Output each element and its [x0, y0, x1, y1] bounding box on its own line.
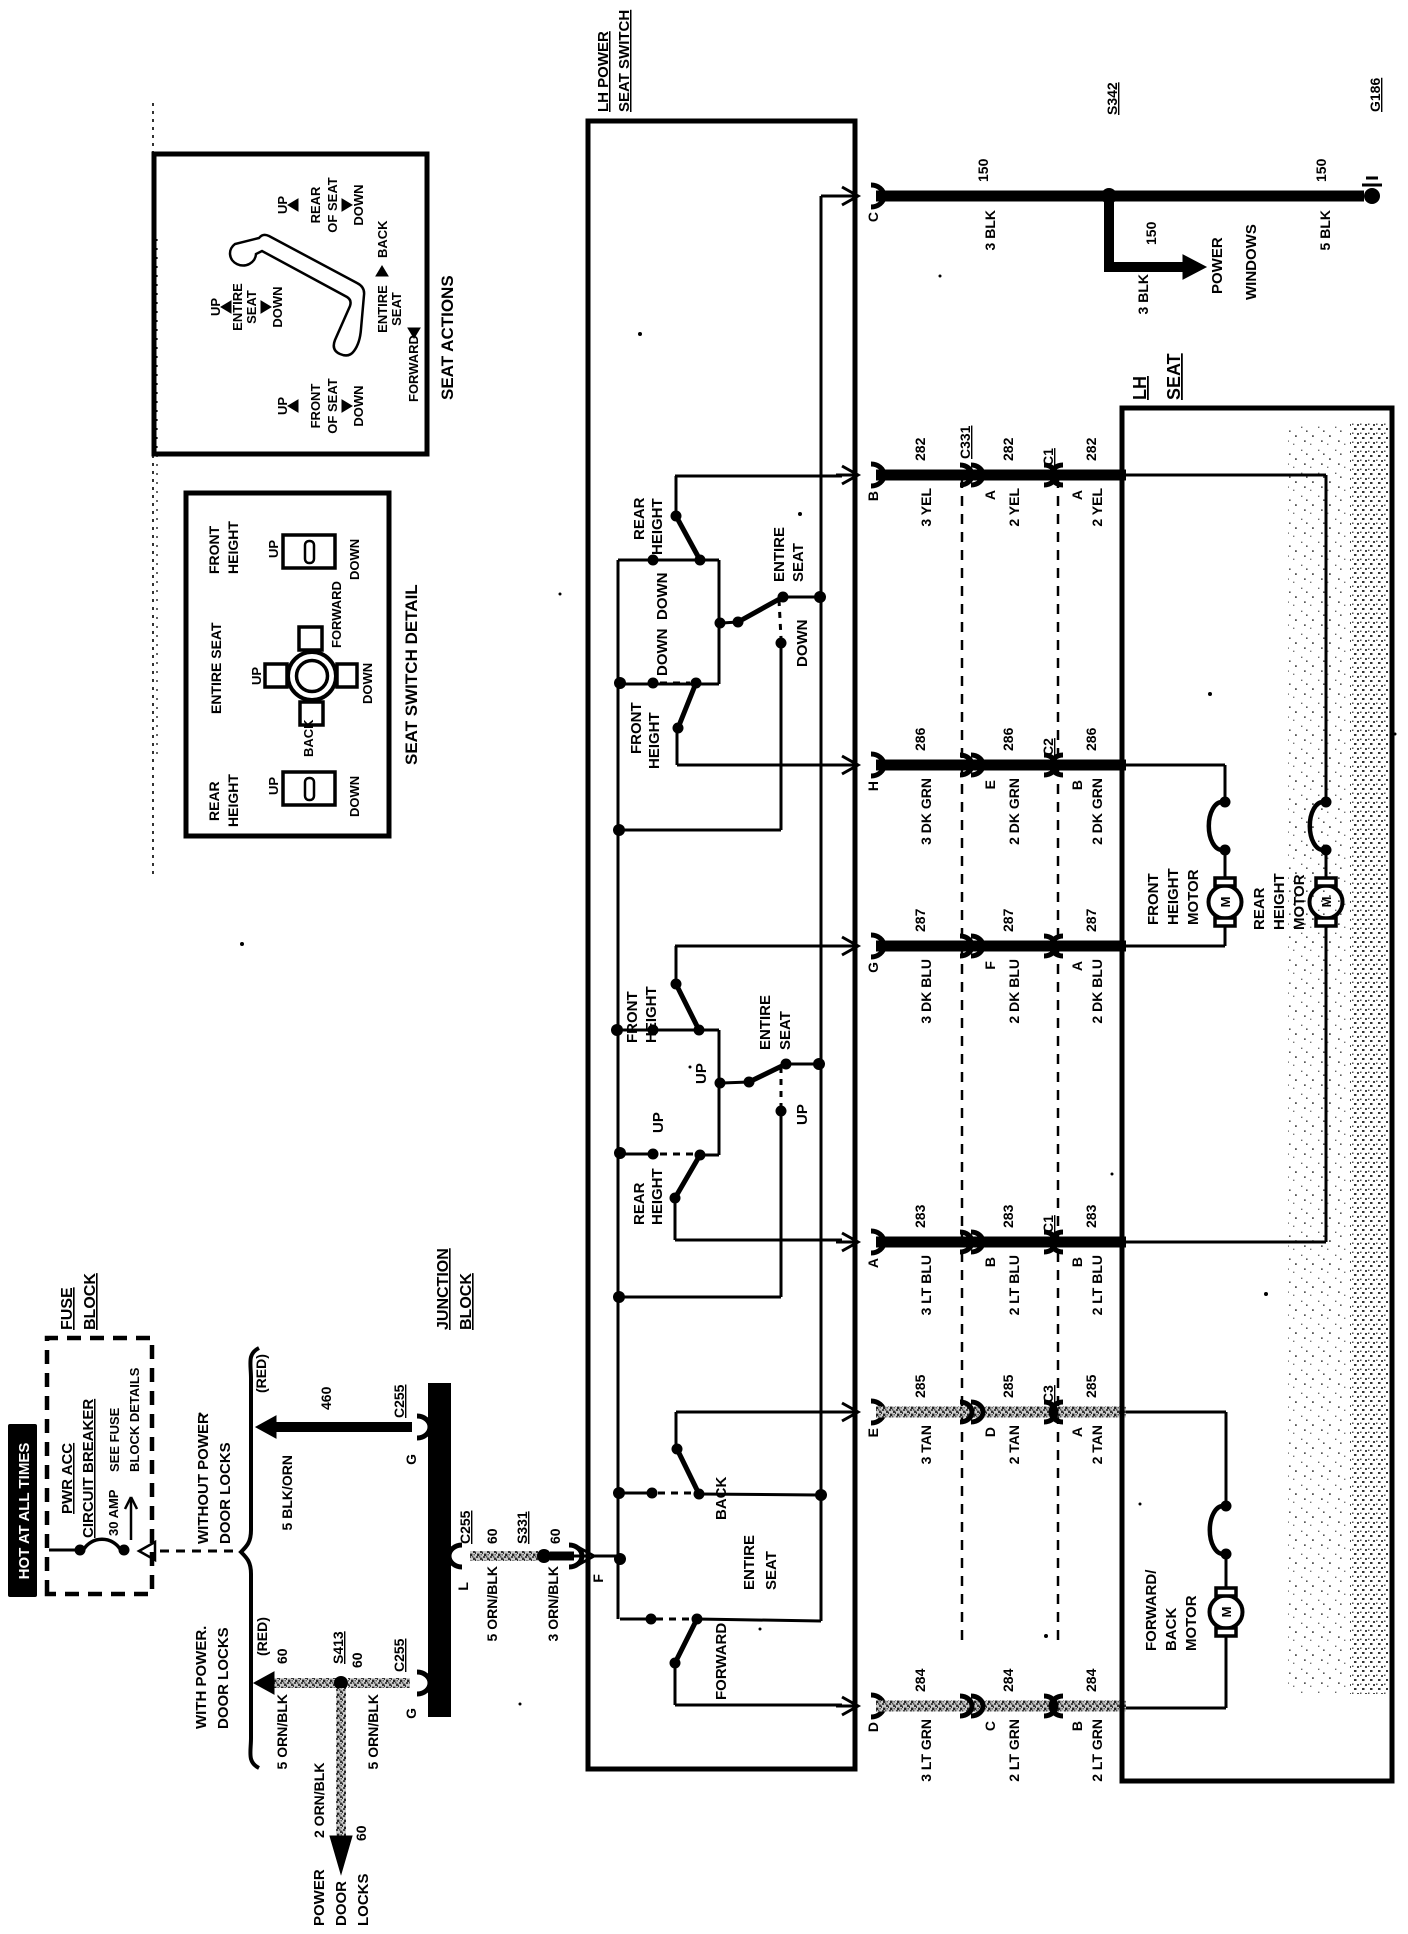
svg-text:POWER: POWER	[1209, 237, 1226, 294]
svg-text:B: B	[1069, 780, 1085, 790]
connector C331 terminal C	[960, 1696, 972, 1716]
svg-text:ENTIRE: ENTIRE	[757, 995, 774, 1050]
inline connector forward/back motor	[1221, 1549, 1232, 1560]
wire 150 3 BLK from terminal C	[876, 191, 1104, 202]
svg-text:JUNCTION: JUNCTION	[435, 1248, 452, 1330]
svg-text:HEIGHT: HEIGHT	[649, 498, 666, 555]
connector C331 terminal B	[960, 1232, 972, 1252]
svg-text:150: 150	[975, 158, 991, 182]
arrow to SEE FUSE BLOCK DETAILS	[130, 1500, 133, 1540]
fuse block dashed box	[47, 1338, 152, 1594]
svg-text:HEIGHT: HEIGHT	[643, 986, 660, 1043]
svg-text:2 DK BLU: 2 DK BLU	[1006, 959, 1022, 1024]
svg-text:S331: S331	[514, 1511, 530, 1544]
rocker switch front height	[283, 535, 335, 568]
svg-text:3 LT BLU: 3 LT BLU	[918, 1255, 934, 1315]
svg-text:3 BLK: 3 BLK	[982, 210, 998, 250]
circuit breaker PWR ACC 30 AMP	[49, 1549, 75, 1552]
svg-text:MOTOR: MOTOR	[1185, 869, 1202, 925]
svg-text:460: 460	[318, 1386, 334, 1410]
svg-text:60: 60	[349, 1652, 365, 1668]
connector C1/C2/C3 terminal B	[1044, 1696, 1056, 1716]
svg-text:M: M	[1218, 897, 1233, 908]
svg-text:5 ORN/BLK: 5 ORN/BLK	[365, 1694, 381, 1769]
svg-text:BACK: BACK	[713, 1477, 730, 1520]
svg-text:FRONT: FRONT	[308, 384, 323, 429]
svg-text:2 YEL: 2 YEL	[1006, 488, 1022, 527]
svg-text:2 LT GRN: 2 LT GRN	[1006, 1719, 1022, 1782]
svg-text:DOWN: DOWN	[270, 286, 285, 327]
svg-text:D: D	[865, 1722, 881, 1732]
svg-text:285: 285	[1000, 1374, 1016, 1398]
svg-text:2 YEL: 2 YEL	[1089, 488, 1105, 527]
splice S413	[334, 1676, 348, 1690]
wire 282 to rear height motor	[1126, 474, 1326, 477]
wire 150 5 BLK to ground	[1114, 191, 1364, 202]
wire 287 to front height motor	[1126, 945, 1225, 948]
svg-text:FRONT: FRONT	[1145, 873, 1162, 925]
svg-text:2 TAN: 2 TAN	[1089, 1425, 1105, 1464]
feed rail bus	[617, 560, 620, 1619]
svg-text:SEAT: SEAT	[1164, 353, 1184, 400]
svg-text:BLOCK DETAILS: BLOCK DETAILS	[127, 1367, 142, 1472]
svg-text:FORWARD: FORWARD	[406, 335, 421, 402]
svg-text:2 TAN: 2 TAN	[1006, 1425, 1022, 1464]
svg-text:5 ORN/BLK: 5 ORN/BLK	[484, 1566, 500, 1641]
svg-text:FRONT: FRONT	[624, 991, 641, 1043]
svg-text:DOWN: DOWN	[360, 663, 375, 704]
svg-text:SEAT SWITCH DETAIL: SEAT SWITCH DETAIL	[402, 584, 421, 765]
terminal B of seat switch	[842, 466, 858, 484]
switch FRONT HEIGHT DOWN	[673, 723, 684, 734]
svg-text:UP: UP	[693, 1063, 710, 1084]
terminal D of seat switch	[842, 1697, 858, 1715]
svg-text:E: E	[982, 780, 998, 789]
svg-text:POWER: POWER	[311, 1869, 328, 1926]
svg-text:3 YEL: 3 YEL	[918, 488, 934, 527]
svg-text:60: 60	[484, 1528, 500, 1544]
switch ENTIRE SEAT UP	[813, 1058, 825, 1070]
terminal C of seat switch	[842, 187, 858, 205]
switch FRONT HEIGHT UP	[675, 946, 678, 984]
motor M rear height	[1310, 886, 1343, 919]
inset box SEAT SWITCH DETAIL	[186, 493, 389, 836]
entire-seat-down contact feed line	[780, 643, 783, 830]
svg-text:OF SEAT: OF SEAT	[325, 378, 340, 433]
LH SEAT box	[1122, 408, 1392, 1781]
connector C1 terminal B	[1044, 1232, 1056, 1252]
svg-text:DOOR LOCKS: DOOR LOCKS	[217, 1442, 234, 1544]
svg-text:284: 284	[912, 1668, 928, 1692]
feed rail from F	[592, 1555, 618, 1558]
junction block bar	[428, 1383, 451, 1717]
svg-text:BACK: BACK	[375, 220, 390, 258]
svg-text:2 LT GRN: 2 LT GRN	[1089, 1719, 1105, 1782]
svg-text:C3: C3	[1040, 1385, 1056, 1403]
svg-text:150: 150	[1143, 221, 1159, 245]
svg-text:287: 287	[912, 908, 928, 932]
svg-text:HEIGHT: HEIGHT	[649, 1168, 666, 1225]
svg-text:282: 282	[912, 437, 928, 461]
svg-text:283: 283	[1083, 1204, 1099, 1228]
svg-text:DOWN: DOWN	[654, 573, 671, 621]
svg-text:DOWN: DOWN	[654, 629, 671, 677]
branch wire 150 3 BLK to power windows	[1104, 192, 1114, 267]
svg-text:SEAT: SEAT	[763, 1551, 780, 1590]
wire 283 to rear height motor	[1126, 1241, 1326, 1244]
connector C2 terminal B	[1044, 755, 1056, 775]
svg-text:30 AMP: 30 AMP	[106, 1489, 121, 1536]
svg-text:FORWARD/: FORWARD/	[1143, 1569, 1160, 1651]
svg-text:M: M	[1219, 1607, 1234, 1618]
svg-text:G186: G186	[1367, 78, 1383, 112]
svg-text:DOWN: DOWN	[347, 776, 362, 817]
svg-text:284: 284	[1083, 1668, 1099, 1692]
svg-text:M: M	[1319, 897, 1334, 908]
svg-text:3 ORN/BLK: 3 ORN/BLK	[545, 1566, 561, 1641]
svg-text:REAR: REAR	[631, 1182, 648, 1225]
wire 5 ORN/BLK (RED) to S413 (speckled)	[266, 1678, 336, 1688]
svg-text:C255: C255	[457, 1510, 473, 1544]
svg-text:(RED): (RED)	[253, 1354, 269, 1393]
svg-text:REAR: REAR	[631, 497, 648, 540]
ground G186	[1364, 188, 1380, 204]
brace for door lock options	[241, 1348, 259, 1768]
svg-text:FORWARD: FORWARD	[329, 581, 344, 648]
svg-text:PWR ACC: PWR ACC	[59, 1443, 76, 1514]
svg-text:LH POWER: LH POWER	[595, 31, 612, 112]
svg-text:B: B	[1069, 1257, 1085, 1267]
svg-text:DOWN: DOWN	[347, 539, 362, 580]
svg-text:SEAT SWITCH: SEAT SWITCH	[616, 10, 633, 112]
svg-text:C255: C255	[391, 1638, 407, 1672]
connector C255 G (without power door locks)	[417, 1416, 430, 1438]
svg-text:DOOR LOCKS: DOOR LOCKS	[215, 1627, 232, 1729]
svg-text:BACK: BACK	[1163, 1608, 1180, 1651]
inset box SEAT ACTIONS	[154, 154, 427, 454]
svg-text:WITHOUT POWER: WITHOUT POWER	[195, 1413, 212, 1544]
svg-text:285: 285	[1083, 1374, 1099, 1398]
svg-text:S413: S413	[330, 1631, 346, 1664]
svg-text:HEIGHT: HEIGHT	[1165, 868, 1182, 925]
svg-text:SEE FUSE: SEE FUSE	[107, 1407, 122, 1472]
connector C331 terminal A	[960, 465, 972, 485]
svg-text:3 BLK: 3 BLK	[1135, 274, 1151, 314]
svg-text:REAR: REAR	[206, 781, 222, 821]
power label HOT AT ALL TIMES	[8, 1424, 37, 1597]
svg-text:60: 60	[353, 1825, 369, 1841]
svg-text:2 DK BLU: 2 DK BLU	[1089, 959, 1105, 1024]
svg-text:HEIGHT: HEIGHT	[1271, 873, 1288, 930]
terminal A of seat switch	[842, 1233, 858, 1251]
switch ENTIRE SEAT DOWN	[814, 591, 826, 603]
connector C331 dashed boundary	[961, 478, 964, 1640]
wire 460 5 BLK/ORN (RED) to junction block	[268, 1422, 412, 1432]
wire 3 ORN/BLK 60 to switch F	[550, 1552, 574, 1561]
contact rail front-height-up	[617, 1029, 719, 1032]
connector C331 terminal E	[960, 755, 972, 775]
svg-text:UP: UP	[266, 540, 281, 558]
svg-text:F: F	[590, 1574, 606, 1583]
connector C255 G (with power door locks)	[417, 1672, 430, 1694]
svg-text:DOWN: DOWN	[794, 620, 811, 668]
svg-text:BACK: BACK	[301, 719, 316, 757]
wire 2 ORN/BLK 60 to power door locks (speckled)	[336, 1688, 346, 1838]
svg-text:3 DK GRN: 3 DK GRN	[918, 778, 934, 845]
svg-text:B: B	[1069, 1721, 1085, 1731]
svg-text:SEAT: SEAT	[790, 543, 807, 582]
svg-text:C: C	[982, 1721, 998, 1731]
terminal F of seat switch	[569, 1545, 582, 1567]
svg-text:284: 284	[1000, 1668, 1016, 1692]
svg-text:283: 283	[912, 1204, 928, 1228]
wire circuit 283 3 LT BLU	[876, 1237, 1126, 1248]
svg-text:ENTIRE: ENTIRE	[771, 527, 788, 582]
svg-text:LOCKS: LOCKS	[355, 1874, 372, 1927]
svg-text:D: D	[982, 1427, 998, 1437]
svg-text:CIRCUIT BREAKER: CIRCUIT BREAKER	[80, 1399, 97, 1538]
splice S331	[537, 1549, 551, 1563]
svg-text:3 LT GRN: 3 LT GRN	[918, 1719, 934, 1782]
svg-text:FRONT: FRONT	[628, 702, 645, 754]
splice S342	[1101, 188, 1117, 204]
svg-text:C1: C1	[1040, 1215, 1056, 1233]
svg-text:H: H	[865, 781, 881, 791]
svg-text:FRONT: FRONT	[206, 525, 222, 574]
svg-text:287: 287	[1000, 908, 1016, 932]
svg-text:283: 283	[1000, 1204, 1016, 1228]
svg-text:LH: LH	[1130, 376, 1150, 400]
svg-text:A: A	[982, 490, 998, 500]
svg-text:E: E	[865, 1428, 881, 1437]
svg-text:A: A	[1069, 490, 1085, 500]
svg-text:HEIGHT: HEIGHT	[225, 774, 241, 827]
wire circuit 282 3 YEL	[876, 470, 1126, 481]
svg-text:HEIGHT: HEIGHT	[225, 521, 241, 574]
ground bus to terminal C	[820, 196, 823, 1621]
svg-text:SEAT: SEAT	[244, 290, 259, 324]
svg-text:F: F	[982, 961, 998, 970]
svg-text:A: A	[1069, 1427, 1085, 1437]
wire 284 to forward/back motor	[1126, 1707, 1226, 1710]
motor M forward/back	[1210, 1596, 1243, 1629]
contact rail rear-height-down	[618, 559, 719, 562]
svg-text:286: 286	[912, 727, 928, 751]
svg-text:A: A	[865, 1258, 881, 1268]
svg-text:282: 282	[1000, 437, 1016, 461]
svg-text:DOWN: DOWN	[351, 184, 366, 225]
svg-text:60: 60	[274, 1648, 290, 1664]
svg-text:G: G	[403, 1708, 419, 1719]
svg-text:OF SEAT: OF SEAT	[325, 177, 340, 232]
svg-text:UP: UP	[249, 667, 264, 685]
svg-text:FORWARD: FORWARD	[713, 1623, 730, 1700]
svg-text:3 DK BLU: 3 DK BLU	[918, 959, 934, 1024]
svg-text:UP: UP	[794, 1104, 811, 1125]
inline connector rear height motor	[1321, 845, 1332, 856]
connector C1/C2/C3 terminal A	[1044, 936, 1056, 956]
switch REAR HEIGHT DOWN	[675, 476, 678, 516]
connector C331 terminal F	[960, 936, 972, 956]
wire circuit 286 3 DK GRN	[876, 760, 1126, 771]
svg-text:150: 150	[1313, 158, 1329, 182]
svg-text:(RED): (RED)	[254, 1617, 270, 1656]
svg-text:2 DK GRN: 2 DK GRN	[1089, 778, 1105, 845]
svg-text:286: 286	[1000, 727, 1016, 751]
svg-text:C1: C1	[1040, 448, 1056, 466]
svg-text:SEAT: SEAT	[389, 292, 404, 326]
svg-text:ENTIRE SEAT: ENTIRE SEAT	[208, 622, 224, 714]
svg-text:3 TAN: 3 TAN	[918, 1425, 934, 1464]
svg-text:L: L	[455, 1582, 471, 1591]
svg-text:B: B	[982, 1257, 998, 1267]
connector C1 terminal A	[1044, 465, 1056, 485]
svg-text:B: B	[865, 491, 881, 501]
terminal G of seat switch	[842, 937, 858, 955]
scan page-edge artifact	[152, 102, 154, 874]
svg-text:60: 60	[547, 1528, 563, 1544]
svg-text:286: 286	[1083, 727, 1099, 751]
svg-text:UP: UP	[650, 1112, 667, 1133]
wire 5 ORN/BLK 60 to S331 (speckled)	[470, 1551, 538, 1561]
svg-text:285: 285	[912, 1374, 928, 1398]
wire circuit 287 3 DK BLU	[876, 941, 1126, 952]
svg-text:BLOCK: BLOCK	[458, 1273, 475, 1330]
svg-text:2 ORN/BLK: 2 ORN/BLK	[311, 1763, 327, 1838]
wire circuit 285 3 TAN	[876, 1407, 1126, 1418]
svg-text:BLOCK: BLOCK	[82, 1273, 99, 1330]
switch REAR HEIGHT UP	[620, 1153, 653, 1156]
svg-text:FUSE: FUSE	[59, 1287, 76, 1330]
breaker output open arrow	[139, 1542, 155, 1560]
wire circuit 284 3 LT GRN	[876, 1701, 1126, 1712]
svg-text:MOTOR: MOTOR	[1291, 874, 1308, 930]
wire 285 to forward/back motor	[1126, 1411, 1226, 1414]
rocker switch rear height	[283, 772, 335, 805]
switch group frame up	[718, 1030, 721, 1155]
svg-text:C255: C255	[391, 1384, 407, 1418]
svg-text:MOTOR: MOTOR	[1183, 1595, 1200, 1651]
motor M front height	[1209, 886, 1242, 919]
dashed wire breaker to brace	[160, 1550, 237, 1553]
svg-text:5 BLK: 5 BLK	[1317, 210, 1333, 250]
inline connector front height motor	[1220, 845, 1231, 856]
svg-text:C2: C2	[1040, 738, 1056, 756]
svg-text:WINDOWS: WINDOWS	[1243, 224, 1260, 300]
svg-text:2 LT BLU: 2 LT BLU	[1089, 1255, 1105, 1315]
svg-text:C: C	[865, 212, 881, 222]
svg-text:5 BLK/ORN: 5 BLK/ORN	[279, 1455, 295, 1530]
connector C255 L feed	[449, 1545, 462, 1567]
svg-text:REAR: REAR	[1251, 887, 1268, 930]
svg-text:SEAT: SEAT	[777, 1011, 794, 1050]
terminal E of seat switch	[842, 1403, 858, 1421]
connector C331 terminal D	[960, 1402, 972, 1422]
svg-text:282: 282	[1083, 437, 1099, 461]
svg-text:DOWN: DOWN	[351, 385, 366, 426]
entire-seat-up contact feed line	[780, 1111, 783, 1297]
svg-text:A: A	[1069, 961, 1085, 971]
svg-text:2 DK GRN: 2 DK GRN	[1006, 778, 1022, 845]
svg-text:WITH POWER.: WITH POWER.	[193, 1626, 210, 1729]
svg-text:DOOR: DOOR	[333, 1881, 350, 1926]
svg-text:ENTIRE: ENTIRE	[230, 283, 245, 331]
svg-text:C331: C331	[957, 425, 973, 459]
knob entire seat	[288, 652, 336, 700]
LH POWER SEAT SWITCH box	[588, 121, 855, 1769]
switch BACK	[620, 1492, 652, 1495]
svg-text:UP: UP	[266, 777, 281, 795]
svg-text:HOT AT ALL TIMES: HOT AT ALL TIMES	[16, 1443, 33, 1580]
svg-text:SEAT ACTIONS: SEAT ACTIONS	[438, 275, 457, 400]
switch group frame down	[718, 560, 721, 684]
svg-text:5 ORN/BLK: 5 ORN/BLK	[274, 1694, 290, 1769]
svg-text:2 LT BLU: 2 LT BLU	[1006, 1255, 1022, 1315]
wire 286 to front height motor	[1126, 764, 1225, 767]
svg-text:ENTIRE: ENTIRE	[741, 1535, 758, 1590]
svg-text:287: 287	[1083, 908, 1099, 932]
svg-text:ENTIRE: ENTIRE	[375, 285, 390, 333]
seat profile drawing	[230, 235, 364, 356]
svg-text:REAR: REAR	[308, 186, 323, 223]
svg-text:G: G	[403, 1454, 419, 1465]
connector C3 terminal A	[1044, 1402, 1056, 1422]
wire 5 ORN/BLK S413 to C255 (speckled)	[348, 1678, 410, 1688]
scan speckles	[240, 942, 244, 946]
scan noise bands inside LH seat box	[1288, 424, 1346, 1694]
connector C1/C2/C3 dashed boundary	[1057, 478, 1060, 1640]
switch FORWARD	[620, 1618, 651, 1621]
terminal H of seat switch	[842, 756, 858, 774]
svg-text:S342: S342	[1104, 82, 1120, 115]
svg-text:G: G	[865, 962, 881, 973]
svg-text:HEIGHT: HEIGHT	[646, 712, 663, 769]
